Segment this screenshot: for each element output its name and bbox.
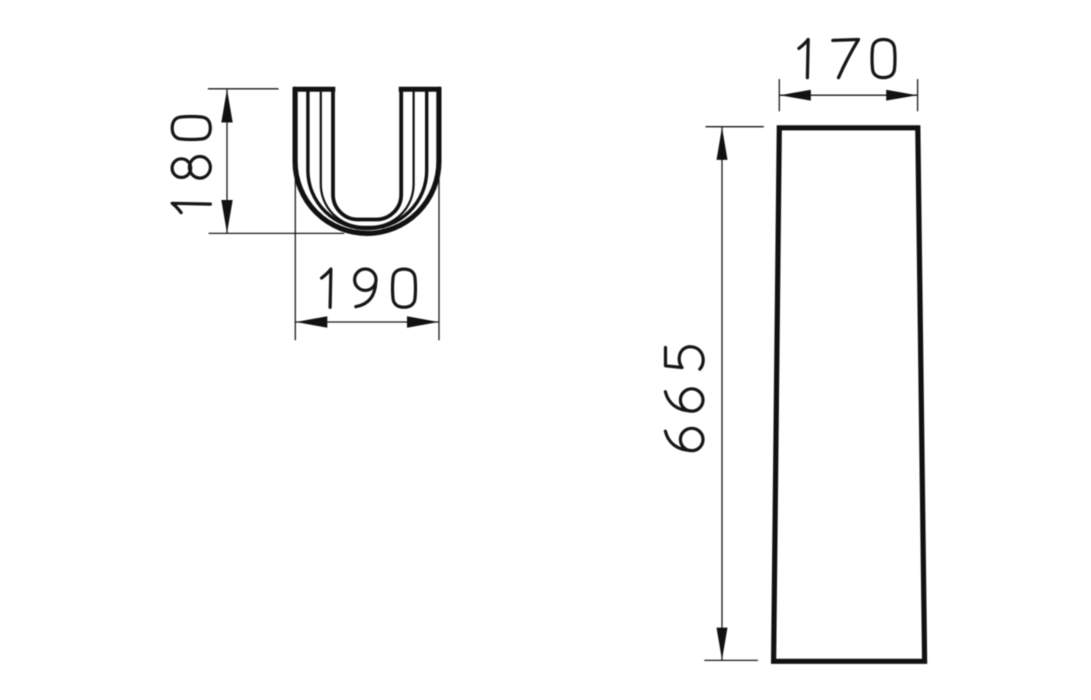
label 190 digit 0: [393, 269, 416, 307]
label 665 (rotated): [665, 347, 703, 451]
dim 190 left arrowhead: [296, 316, 328, 327]
dim 665 dimension line: [721, 127, 723, 660]
third contour U (thin): [321, 91, 414, 227]
dim 170 dimension line: [779, 94, 917, 96]
label 180 (rotated): [172, 117, 210, 213]
dim 180 top extension line: [208, 88, 279, 90]
label 190 digit 9: [355, 269, 376, 307]
left leg top cap: [293, 87, 336, 92]
dim 170 left arrowhead: [780, 90, 811, 101]
dim 190 left extension line: [294, 163, 296, 340]
inner contour U: [333, 91, 401, 220]
label 170 digit 1: [799, 40, 808, 78]
dim 665 bottom extension line: [704, 659, 758, 661]
right leg top cap: [399, 87, 442, 92]
pedestal front outline: [774, 128, 925, 662]
dim 170 right extension line: [917, 79, 919, 111]
dim 190 right extension line: [438, 163, 440, 340]
second contour U (medium): [308, 91, 427, 229]
dim 180 down arrowhead: [221, 200, 232, 233]
dim 180 up arrowhead: [221, 89, 232, 122]
label 190 digit 1: [322, 269, 331, 307]
outer contour U: [295, 89, 439, 233]
dim 665 down arrowhead: [717, 628, 728, 660]
dim 665 top extension line: [706, 126, 764, 128]
dim 180 dimension line: [226, 89, 228, 233]
dim 190 right arrowhead: [407, 316, 439, 327]
dim 170 left extension line: [778, 79, 780, 111]
label 170 digit 0: [872, 40, 895, 78]
label 170 digit 7: [833, 40, 859, 78]
dim 190 dimension line: [295, 321, 439, 323]
dim 665 up arrowhead: [717, 127, 728, 160]
dim 180 bottom extension line: [209, 232, 345, 234]
dim 170 right arrowhead: [886, 90, 917, 101]
